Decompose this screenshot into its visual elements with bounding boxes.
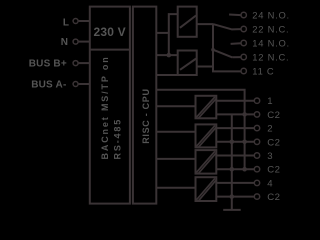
wire opto IN4 input: [156, 187, 195, 189]
wire V1 vertical to relay K1: [169, 14, 178, 55]
wire opto IN2 out to C2: [217, 141, 255, 143]
relay K1 box: [178, 7, 197, 37]
svg-text:2: 2: [267, 124, 273, 135]
svg-text:4: 4: [267, 178, 273, 189]
terminal circle C2-4: [254, 194, 259, 199]
terminal circle 24 N.O.: [241, 12, 246, 17]
rail B (C2 bus): [244, 114, 246, 169]
svg-text:C2: C2: [267, 165, 280, 176]
opto IN3 box: [196, 150, 217, 174]
wire opto IN4 out to 4: [217, 182, 255, 184]
wire common vertical to 11 C: [213, 24, 241, 71]
svg-text:RS-485: RS-485: [112, 118, 122, 160]
svg-text:C2: C2: [267, 192, 280, 203]
terminal circle 3: [254, 153, 259, 158]
svg-text:BACnet MS/TP on: BACnet MS/TP on: [100, 55, 110, 159]
wire relay K2 output: [197, 66, 213, 68]
wire opto IN2 input: [156, 131, 195, 133]
rail A (C2 bus to ground): [231, 114, 233, 209]
svg-text:230 V: 230 V: [94, 25, 126, 39]
wire opto IN1 input: [156, 105, 195, 107]
wire CPU to relay K2 bottom: [156, 74, 177, 76]
junction dot C2-3 railA: [230, 167, 235, 172]
wire BUS B+: [79, 62, 90, 64]
terminal circle BUS B+: [73, 61, 78, 66]
terminal circle C2-3: [254, 167, 259, 172]
junction dot C2-3 railB: [242, 167, 247, 172]
wire opto IN3 out to C2: [217, 168, 255, 170]
svg-text:1: 1: [267, 96, 273, 107]
junction dot C2-4 railA: [230, 194, 235, 199]
opto IN1 diagonals: [196, 97, 215, 117]
opto IN4 diagonals: [196, 178, 215, 200]
wire L: [79, 20, 90, 22]
svg-text:3: 3: [267, 151, 273, 162]
svg-text:24 N.O.: 24 N.O.: [252, 10, 290, 21]
RISC-CPU box: [133, 7, 156, 204]
terminal circle 14 N.O.: [241, 40, 246, 45]
wire opto IN3 out to 3: [217, 155, 255, 157]
terminal circle N: [73, 39, 78, 44]
wire opto IN1 out to 1: [217, 100, 255, 102]
wire opto IN1 out to C2: [217, 113, 255, 115]
wire CPU to node V1 (y=33): [156, 32, 169, 34]
svg-text:BUS A-: BUS A-: [31, 79, 66, 90]
svg-text:BUS B+: BUS B+: [29, 59, 67, 70]
terminal circle C2-1: [254, 112, 259, 117]
wire opto IN2 out to 2: [217, 127, 255, 129]
svg-text:12 N.C.: 12 N.C.: [252, 52, 289, 63]
opto IN1 box: [196, 96, 217, 119]
opto IN2 diagonals: [196, 126, 215, 147]
svg-text:RISC - CPU: RISC - CPU: [141, 88, 151, 144]
switch arm relay K2: [213, 50, 232, 58]
opto IN4 box: [196, 177, 217, 201]
junction dot arm K2: [211, 48, 215, 52]
switch arm relay K1: [213, 24, 232, 30]
terminal circle 12 N.C.: [241, 54, 246, 59]
wire relay K1 output: [197, 23, 213, 25]
relay K2 diagonal: [180, 59, 196, 70]
relay K1 diagonal: [180, 16, 196, 28]
wire N: [79, 41, 90, 43]
svg-text:C2: C2: [267, 137, 280, 148]
contact stub 12 N.C.: [232, 56, 240, 58]
wire C2 common feed: [156, 90, 244, 115]
junction dot C2-1 railB: [242, 112, 247, 117]
main box (power + BACnet): [90, 7, 130, 204]
terminal circle 1: [254, 98, 259, 103]
contact stub 24 N.O.: [229, 14, 241, 17]
contact stub 22 N.C.: [232, 28, 241, 30]
terminal circle BUS A-: [73, 82, 78, 87]
junction dot C2-2 railB: [242, 140, 247, 145]
wire opto IN3 input: [156, 158, 195, 160]
relay K2 box: [178, 51, 197, 76]
opto IN2 box: [196, 124, 217, 147]
junction dot C2-2 railA: [230, 140, 235, 145]
svg-text:14 N.O.: 14 N.O.: [252, 38, 290, 49]
wire BUS A-: [79, 83, 90, 85]
terminal circle 11 C: [241, 68, 246, 73]
svg-text:22 N.C.: 22 N.C.: [252, 24, 289, 35]
230V divider: [90, 49, 130, 51]
terminal circle L: [73, 19, 78, 24]
ground: [223, 209, 241, 211]
wire CPU to relay K2 coil: [156, 54, 177, 56]
svg-text:C2: C2: [267, 110, 280, 121]
terminal circle C2-2: [254, 139, 259, 144]
wire opto IN4 out to C2: [217, 196, 255, 198]
junction dot V1: [167, 53, 172, 58]
terminal circle 2: [254, 125, 259, 130]
opto IN3 diagonals: [196, 151, 215, 172]
terminal circle 4: [254, 180, 259, 185]
contact stub 14 N.O.: [231, 42, 241, 45]
svg-text:11 C: 11 C: [252, 66, 274, 77]
terminal circle 22 N.C.: [241, 26, 246, 31]
svg-text:L: L: [63, 17, 69, 28]
svg-text:N: N: [61, 37, 68, 48]
